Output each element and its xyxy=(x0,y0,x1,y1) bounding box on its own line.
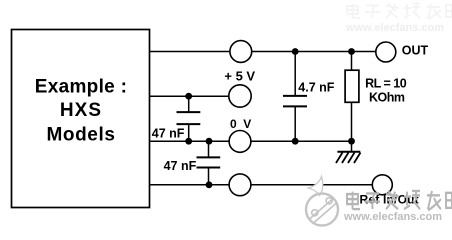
ground: top bar xyxy=(337,151,360,153)
junction: C2 bottom on row D xyxy=(206,181,213,188)
capacitor C3 4.7nF: stem from row A xyxy=(294,52,296,96)
svg-text:RL = 10: RL = 10 xyxy=(365,76,407,90)
svg-text:47 nF: 47 nF xyxy=(164,159,197,173)
junction: C1 top on row B xyxy=(185,93,192,100)
junction: RL top on row A xyxy=(348,48,355,55)
svg-text:Example :: Example : xyxy=(35,76,127,97)
capacitor C3: stem to row C xyxy=(294,106,296,141)
junction: C2 top on row C xyxy=(206,138,213,145)
svg-text:47 nF: 47 nF xyxy=(152,126,185,140)
watermark logo leaf over row D wire xyxy=(309,177,323,196)
capacitor C3: top plate xyxy=(283,95,307,97)
capacitor C1: top plate xyxy=(177,111,201,113)
wire: terminal T1 to OUT terminal (row A right) xyxy=(251,51,376,53)
svg-text:Models: Models xyxy=(46,125,115,146)
capacitor C2 47nF: stem from row C xyxy=(208,141,210,157)
terminal +5V (pin circle, row B) xyxy=(229,85,251,107)
capacitor C3: bottom plate xyxy=(283,105,307,107)
svg-text:0 V: 0 V xyxy=(230,117,253,131)
svg-text:www.elecfans.com: www.elecfans.com xyxy=(343,211,442,223)
block U1 "Example: HXS Models" xyxy=(12,30,150,208)
capacitor C1: bottom plate xyxy=(177,123,201,125)
watermark bottom-right: elecfans logo circle xyxy=(306,177,338,226)
svg-text:+ 5 V: + 5 V xyxy=(224,69,255,84)
terminal 0V (pin circle, row C) xyxy=(229,131,251,153)
svg-text:OUT: OUT xyxy=(402,43,429,57)
terminal OUT (pin circle) xyxy=(376,42,396,62)
resistor RL: stem to row C xyxy=(351,102,353,141)
wire: row D to Ref In/Out terminal xyxy=(251,184,373,186)
junction: C3 top on row A xyxy=(292,48,299,55)
ground: hatch stroke 3 xyxy=(348,153,355,164)
terminal Ref In/Out (pin circle) xyxy=(372,175,392,195)
resistor RL: body xyxy=(345,70,359,102)
watermark top-right: chinese characters (pseudo-glyphs, faint) xyxy=(347,4,452,20)
terminal T1 (pin circle, row A) xyxy=(230,41,252,63)
watermark bottom-right: chinese characters (pseudo-glyphs) xyxy=(347,191,452,210)
wire: box to Ref terminal (row D left) xyxy=(150,184,230,186)
wire: box output to terminal T1 (row A left) xyxy=(150,51,231,53)
wire: 0V terminal to ground node (row C right) xyxy=(251,140,352,142)
svg-text:4.7 nF: 4.7 nF xyxy=(298,80,334,94)
ground: stem from row C junction xyxy=(351,141,353,152)
terminal row D (pin circle) xyxy=(229,174,251,196)
capacitor C2: top plate xyxy=(197,156,221,158)
wire: box to 0V terminal (row C left) xyxy=(150,140,231,142)
capacitor C2: bottom plate xyxy=(197,167,221,169)
svg-text:KOhm: KOhm xyxy=(369,91,405,105)
junction: C1 bottom on row C xyxy=(185,138,192,145)
ground: hatch stroke 1 xyxy=(336,153,343,164)
capacitor C1 47nF: stem from row B xyxy=(188,96,190,112)
capacitor C2: stem to row D xyxy=(208,168,210,185)
svg-text:www.elecfans.com: www.elecfans.com xyxy=(345,22,444,34)
svg-text:HXS: HXS xyxy=(60,100,102,121)
resistor RL: stem from row A xyxy=(351,52,353,71)
wire: box to +5V terminal (row B) xyxy=(150,95,230,97)
ground: hatch stroke 4 xyxy=(354,153,361,164)
junction: RL bottom / ground on row C xyxy=(348,138,355,145)
junction: C3 bottom on row C xyxy=(292,138,299,145)
capacitor C1: stem to row C xyxy=(188,124,190,141)
ground: hatch stroke 2 xyxy=(342,153,349,164)
